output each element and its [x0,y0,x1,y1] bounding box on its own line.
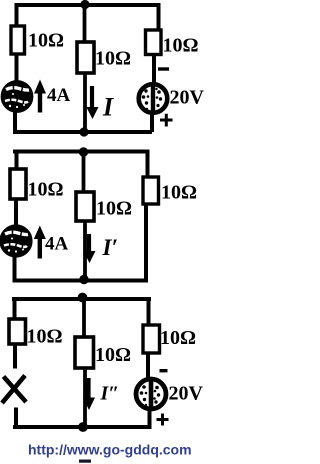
label VS1 value 20V [170,87,205,109]
wire: circuit1 right branch upper segment [157,3,161,31]
node: circuit1 top junction [80,0,89,9]
wire: circuit3 left branch stub above X [13,344,17,369]
resistor R1 10ohm (circuit1 left) [11,26,25,54]
resistor R8 10ohm (circuit3 middle) [75,337,94,368]
wire: circuit1 right branch lower segment [150,112,154,132]
wire: circuit1 top wire [15,3,161,7]
svg-text:I: I [102,93,114,122]
label R2 value 10Ω [95,48,131,70]
svg-text:10Ω: 10Ω [96,198,132,220]
label current I' [102,235,118,260]
label IS1 value 4A [47,85,71,106]
current source IS2 4A (circuit2 left) [2,227,31,256]
label: VS1 plus terminal [160,114,173,127]
resistor R5 10ohm (circuit2 middle) [76,192,94,221]
label current I [102,93,114,122]
svg-text:10Ω: 10Ω [95,48,131,70]
svg-text:I′: I′ [102,235,118,260]
wire: circuit2 right branch lower segment [144,204,148,281]
wire: circuit3 middle branch upper segment [82,299,86,338]
node: circuit1 bottom junction [79,127,88,136]
arrow: branch current I (down) [86,86,98,119]
label R8 value 10Ω [95,344,131,366]
label R1 value 10Ω [28,30,64,52]
wire: circuit2 middle branch upper segment [82,152,86,193]
label VS2 value 20V [169,383,204,405]
svg-text:20V: 20V [170,87,205,109]
node: circuit2 bottom junction [79,275,88,284]
svg-text:http://www.go-gddq.com: http://www.go-gddq.com [28,442,192,458]
svg-text:I″: I″ [100,383,120,405]
wire: circuit3 middle branch lower segment [83,368,87,426]
wire: circuit1 left branch upper segment [15,3,19,27]
X mark: removed source (open circuit) [2,376,26,404]
wire: circuit2 right branch upper segment [146,150,150,178]
label R5 value 10Ω [96,198,132,220]
resistor R2 10ohm (circuit1 middle) [77,42,94,73]
wire: circuit2 left branch mid segment [14,199,18,227]
svg-text:10Ω: 10Ω [27,326,63,348]
wire: circuit3 left branch stub below X [14,408,18,428]
node: circuit3 bottom junction [78,422,88,432]
svg-text:10Ω: 10Ω [28,179,64,201]
svg-text:10Ω: 10Ω [160,327,196,349]
wire: circuit1 right branch mid segment [152,54,156,84]
svg-text:4A: 4A [47,85,71,106]
wire: circuit3 top wire [12,297,151,301]
label IS2 value 4A [45,234,69,255]
label R6 value 10Ω [161,182,197,204]
arrow: branch current I'' (down) [83,378,95,410]
label: VS2 minus terminal [160,369,168,372]
current source IS1 4A (circuit1 left) [3,82,31,110]
svg-text:10Ω: 10Ω [163,35,199,57]
wire: circuit1 left branch lower segment [13,111,17,132]
arrow: IS2 current direction (up) [34,226,46,259]
label current I'' [100,383,120,405]
resistor R7 10ohm (circuit3 left) [9,319,26,344]
wire: circuit1 middle branch upper segment [83,5,87,43]
wire: circuit2 top wire [13,150,150,154]
wire: circuit1 left branch mid segment [15,54,19,82]
resistor R4 10ohm (circuit2 left) [10,169,26,199]
wire: circuit3 left branch upper segment [13,297,17,320]
node: circuit3 top junction [78,293,88,303]
label R9 value 10Ω [160,327,196,349]
voltage source VS2 20V (circuit3 right) [136,379,166,409]
wire: circuit2 left branch lower segment [13,256,17,281]
wire: circuit1 middle branch lower segment [83,73,87,131]
wire: circuit2 middle branch lower segment [83,221,87,279]
label: footer website url [28,442,192,458]
label R7 value 10Ω [27,326,63,348]
wire: circuit2 bottom wire [13,279,149,283]
wire: circuit3 right branch lower segment [148,408,152,429]
label: VS1 minus terminal [158,67,169,70]
wire: circuit3 bottom wire [13,425,150,429]
label R4 value 10Ω [28,179,64,201]
node: circuit2 top junction [79,147,88,156]
wire: circuit3 right branch upper segment [147,297,151,326]
resistor R3 10ohm (circuit1 right) [146,30,162,55]
arrow: branch current I' (down) [83,234,95,263]
svg-text:20V: 20V [169,383,204,405]
label R3 value 10Ω [163,35,199,57]
label: VS2 plus terminal [157,414,169,426]
wire: circuit3 right branch mid segment [146,353,150,379]
wire: circuit1 bottom wire [13,130,152,134]
svg-text:4A: 4A [45,234,69,255]
wire: circuit2 left branch upper segment [15,150,19,170]
arrow: IS1 current direction (up) [34,80,46,113]
svg-text:10Ω: 10Ω [28,30,64,52]
svg-text:10Ω: 10Ω [161,182,197,204]
svg-text:10Ω: 10Ω [95,344,131,366]
resistor R9 10ohm (circuit3 right) [143,325,160,353]
resistor R6 10ohm (circuit2 right) [143,177,159,204]
voltage source VS1 20V (circuit1 right) [139,84,168,113]
label: footer dash mark [79,460,91,463]
